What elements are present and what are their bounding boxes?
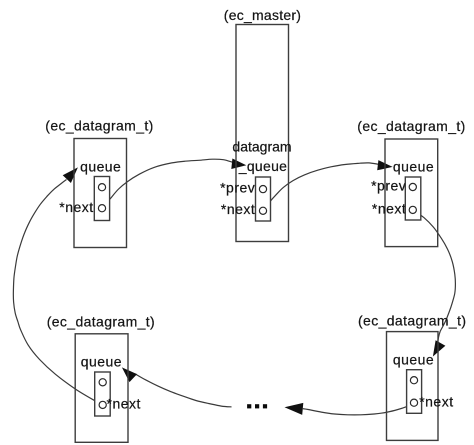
svg-text:(ec_datagram_t): (ec_datagram_t) <box>358 312 466 328</box>
node: master list_head rect <box>256 177 271 221</box>
svg-text:*next: *next <box>419 393 453 409</box>
wire: arc from master *next to right datagram queue <box>263 163 378 211</box>
svg-text:queue: queue <box>393 351 434 367</box>
svg-text:queue: queue <box>81 353 122 369</box>
wire: arc from bottom-right *next to ellipsis <box>303 403 414 414</box>
box: left ec_datagram_t outer rect <box>74 139 127 248</box>
svg-text:_queue: _queue <box>238 158 288 174</box>
pin: bottom-right prev circle <box>410 377 417 384</box>
arrowhead into right datagram queue <box>377 160 392 170</box>
pin: left next circle <box>98 205 105 212</box>
node: left queue rect <box>94 177 109 221</box>
box: ec_master outer rect <box>236 25 289 242</box>
pin: right next circle <box>409 206 416 213</box>
svg-text:datagram: datagram <box>232 139 291 155</box>
box: bottom-right ec_datagram_t outer rect <box>387 332 439 441</box>
wire: big left arc from bottom-left *next to left datagram queue <box>13 180 102 405</box>
pin: right prev circle <box>409 183 416 190</box>
pin: master next circle <box>259 207 266 214</box>
arrowhead into bottom-right queue <box>433 340 446 356</box>
arrowhead into master _queue <box>231 159 246 170</box>
svg-text:(ec_datagram_t): (ec_datagram_t) <box>357 118 465 134</box>
svg-text:(ec_datagram_t): (ec_datagram_t) <box>47 313 155 329</box>
svg-text:queue: queue <box>80 158 121 174</box>
svg-text:*next: *next <box>221 201 255 217</box>
box: right ec_datagram_t outer rect <box>385 139 438 247</box>
ellipsis dots <box>247 404 251 408</box>
svg-text:*next: *next <box>372 201 406 217</box>
svg-text:*next: *next <box>107 395 141 411</box>
svg-text:*prev: *prev <box>371 178 406 194</box>
wire: arc from ellipsis to bottom-left queue <box>135 374 231 407</box>
node: bottom-left queue rect <box>95 372 111 416</box>
svg-text:*next: *next <box>59 199 93 215</box>
svg-text:*prev: *prev <box>220 179 255 195</box>
pin: bottom-right next circle <box>410 399 417 406</box>
arrowhead into bottom-left queue <box>122 367 137 382</box>
box: bottom-left ec_datagram_t outer rect <box>75 334 128 443</box>
svg-text:(ec_master): (ec_master) <box>224 7 301 23</box>
wire: arc from left datagram *next to master _queue <box>102 159 232 208</box>
svg-text:(ec_datagram_t): (ec_datagram_t) <box>45 117 153 133</box>
pin: bottom-left prev circle <box>99 379 106 386</box>
pin: left prev circle <box>98 184 105 191</box>
pin: bottom-left next circle <box>99 401 106 408</box>
arrowhead into left datagram queue <box>63 167 78 183</box>
node: bottom-right queue rect <box>407 370 422 414</box>
node: right queue rect <box>405 177 421 220</box>
pin: master prev circle <box>259 186 266 193</box>
svg-text:queue: queue <box>393 158 434 174</box>
arrowhead into ellipsis (pointing left) <box>285 403 304 415</box>
wire: arc from right datagram *next down to bottom-right queue <box>413 210 456 344</box>
